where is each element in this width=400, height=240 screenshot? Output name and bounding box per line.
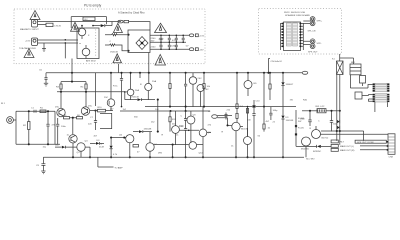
input loop wire xyxy=(16,111,60,144)
transistor Q18 xyxy=(197,85,209,107)
wire Q4 to rail2 xyxy=(85,147,91,158)
current source Q3 xyxy=(69,135,77,158)
cap C14 xyxy=(330,110,333,132)
svg-text:R41 0.22: R41 0.22 xyxy=(316,106,326,108)
wire J2 lower xyxy=(38,43,79,49)
jumper box W1 xyxy=(46,23,62,27)
svg-text:2200: 2200 xyxy=(151,38,157,40)
output rail left xyxy=(336,75,338,141)
shunt resistor R2 xyxy=(23,110,30,145)
label box inside A xyxy=(83,17,95,21)
svg-text:2SA: 2SA xyxy=(152,80,157,83)
aux box X2 xyxy=(355,92,373,99)
warning triangle T7 xyxy=(155,55,166,66)
svg-text:2SC: 2SC xyxy=(55,107,60,109)
svg-text:MAIN OUT (R): MAIN OUT (R) xyxy=(340,149,355,152)
svg-text:1N4148: 1N4148 xyxy=(131,97,139,99)
transistor Q4 xyxy=(77,143,85,158)
box B inner labels xyxy=(79,35,90,45)
cap C8 pair xyxy=(181,111,188,158)
svg-text:ATN 5532: ATN 5532 xyxy=(86,59,96,62)
svg-text:A Started by Chad Rho: A Started by Chad Rho xyxy=(118,11,145,15)
terminal row 2 xyxy=(331,144,388,148)
svg-text:35V: 35V xyxy=(151,41,155,43)
relay coil K1 xyxy=(337,61,344,75)
cap C15 xyxy=(113,72,123,108)
bias line xyxy=(57,91,125,93)
speaker jack SPK- xyxy=(303,39,322,54)
cap C3 xyxy=(56,118,67,144)
diode D4 row xyxy=(125,92,155,101)
feeder x204 with resistor xyxy=(203,73,211,107)
aux box X1 xyxy=(360,76,366,84)
feeder x170 with resistor xyxy=(169,73,171,107)
series resistor R1 xyxy=(40,108,46,113)
diode D5 xyxy=(133,130,152,133)
IC U3 left pins xyxy=(281,23,284,50)
relay sub-box B xyxy=(77,28,99,59)
transistor Q17 xyxy=(189,73,202,107)
transistor Q12 xyxy=(240,127,252,159)
svg-text:BD: BD xyxy=(254,83,257,85)
svg-text:SPK+: SPK+ xyxy=(317,21,323,23)
emitter resistor R41 xyxy=(302,106,341,113)
output stub upper of box A xyxy=(189,34,204,38)
diode D11v xyxy=(99,138,118,159)
tail wire xyxy=(70,117,77,135)
zener D10 xyxy=(296,145,331,153)
warning triangle T4b xyxy=(113,54,122,63)
wire box D to relay xyxy=(340,54,354,64)
protection diode D9 xyxy=(337,126,340,129)
load resistor R3 xyxy=(56,82,62,109)
header J5 xyxy=(373,83,390,92)
wire y131 to output xyxy=(321,130,364,141)
svg-text:SPL-CB: SPL-CB xyxy=(308,31,316,33)
svg-text:2SC: 2SC xyxy=(198,78,203,80)
drop from box A x118 xyxy=(118,64,120,73)
IC U3 body xyxy=(284,22,301,51)
shunt cap C2a xyxy=(46,110,49,145)
resistor R10 xyxy=(90,107,113,112)
cap C7 xyxy=(90,111,97,130)
svg-text:CN8: CN8 xyxy=(389,157,394,159)
wires relay to header xyxy=(350,75,372,88)
resistor R15 xyxy=(263,73,265,132)
load resistor R4 xyxy=(81,82,88,107)
transistor Q13 xyxy=(244,73,257,96)
svg-text:100n: 100n xyxy=(300,119,306,121)
junction dots on rail xyxy=(71,72,284,74)
protection diode D8 xyxy=(337,120,340,123)
filter cap bank rails xyxy=(150,35,189,49)
svg-text:PU is empty: PU is empty xyxy=(84,4,102,8)
transistor Q2 xyxy=(81,107,89,115)
wire J2 upper xyxy=(38,39,79,41)
svg-text:1N4007: 1N4007 xyxy=(286,84,294,86)
svg-text:+15V: +15V xyxy=(25,41,31,43)
svg-text:2SC: 2SC xyxy=(104,97,109,99)
driver transistor Q16 xyxy=(145,73,157,100)
diode D1 xyxy=(92,22,112,28)
ground rail 2 xyxy=(43,156,304,158)
svg-text:2SA: 2SA xyxy=(135,89,140,92)
lower wire with resistor xyxy=(105,41,130,54)
svg-text:SPK OUT: SPK OUT xyxy=(308,52,318,54)
svg-text:SPEAKER JUNK BOARD: SPEAKER JUNK BOARD xyxy=(285,14,310,17)
svg-text:CN-3x8=24: CN-3x8=24 xyxy=(271,61,283,63)
svg-text:1N4148: 1N4148 xyxy=(286,120,294,122)
svg-text:100n: 100n xyxy=(333,124,339,126)
emitter resistor R6 xyxy=(77,115,83,119)
bank labels xyxy=(151,38,190,49)
feedback step wire xyxy=(100,113,112,128)
bridge rectifier BR1 xyxy=(136,37,148,50)
svg-text:2200: 2200 xyxy=(159,39,165,41)
warning triangle T2 xyxy=(24,49,34,58)
transistor Q1 xyxy=(57,108,65,116)
wire rail to diode row xyxy=(139,73,141,78)
resistor R18 xyxy=(133,145,139,148)
terminal row 1 xyxy=(331,140,388,144)
diode D6 xyxy=(281,73,294,116)
mid bus y111 xyxy=(120,110,210,112)
svg-text:TO AMP: TO AMP xyxy=(114,166,123,169)
svg-text:2200: 2200 xyxy=(171,46,177,48)
transistor Q19 xyxy=(172,111,199,145)
dashed enclosure box A (preamp module) xyxy=(14,9,205,64)
mid bus y106 xyxy=(145,106,296,108)
svg-text:2SC: 2SC xyxy=(88,106,93,108)
wire J1 lower stub xyxy=(38,24,47,26)
warning triangle T4 xyxy=(113,23,122,32)
resistor R12 xyxy=(169,111,177,132)
dashed enclosure box D (speaker junk board) xyxy=(259,9,342,54)
ground below J2 xyxy=(42,49,46,52)
connector J4 xyxy=(208,111,251,126)
cap column C11 xyxy=(252,100,255,158)
transistor Q9 xyxy=(199,107,211,159)
svg-text:+15V: +15V xyxy=(199,36,205,38)
pad P1 xyxy=(295,118,305,127)
output transistor Q14 xyxy=(312,126,389,140)
main positive rail xyxy=(46,72,302,74)
relay contact block K1b xyxy=(350,62,361,75)
drop from box A x148 xyxy=(148,53,150,73)
warning triangle T1 xyxy=(30,11,40,20)
connector CN8 body xyxy=(387,134,395,159)
svg-text:SLO MO: SLO MO xyxy=(306,158,315,160)
test point TP1 xyxy=(302,71,308,74)
svg-text:SPK OUT (COM): SPK OUT (COM) xyxy=(357,142,374,144)
capacitor C4 xyxy=(175,35,178,51)
svg-text:100p: 100p xyxy=(179,126,185,128)
opto U2 lower xyxy=(82,45,90,59)
svg-text:TOA TAKEOVER: TOA TAKEOVER xyxy=(19,47,36,50)
svg-text:2SC: 2SC xyxy=(205,89,210,91)
mid wire y144 xyxy=(154,144,203,159)
speaker jack SPK+ xyxy=(303,17,323,26)
cap C10 xyxy=(225,113,228,120)
svg-text:4148: 4148 xyxy=(99,147,105,149)
resistor R14 xyxy=(236,73,244,123)
output rail right xyxy=(339,75,341,145)
connector J1 magnetic input xyxy=(32,20,38,28)
svg-text:100n: 100n xyxy=(61,126,67,128)
svg-text:RLY: RLY xyxy=(340,142,345,144)
pad P2 xyxy=(295,110,305,146)
svg-text:MAIN OUT (L): MAIN OUT (L) xyxy=(340,145,354,148)
output stub lower of box A xyxy=(189,48,204,52)
coupling cap C1 xyxy=(31,108,36,113)
bias diode D2 xyxy=(55,144,77,148)
transistor Q6 xyxy=(110,135,134,159)
IC U3 right pins xyxy=(300,23,304,50)
warning triangle T3 xyxy=(71,22,80,31)
resistor R19 xyxy=(246,106,248,137)
cap C12 xyxy=(269,107,272,120)
svg-text:1N: 1N xyxy=(99,144,102,146)
svg-text:BZX85C: BZX85C xyxy=(313,151,322,153)
resistor R16 xyxy=(269,73,271,100)
vertical to rail xyxy=(65,43,72,73)
svg-text:R 220: R 220 xyxy=(298,128,305,130)
transistor Q10 xyxy=(189,124,197,149)
svg-text:C75-W: C75-W xyxy=(54,25,62,27)
bridge loop C xyxy=(128,30,150,53)
diode D7 xyxy=(281,116,294,159)
svg-text:MJ2955: MJ2955 xyxy=(301,149,310,151)
transistor Q11 xyxy=(232,122,249,158)
warning triangle T5 xyxy=(155,23,167,32)
capacitor C5 xyxy=(182,35,185,44)
VAS transistor Q5 xyxy=(107,73,115,111)
svg-text:MAGNETIC INPUT: MAGNETIC INPUT xyxy=(20,28,39,31)
terminal row 3 xyxy=(331,148,388,152)
transistor Q7 xyxy=(146,132,154,159)
svg-text:-15V: -15V xyxy=(199,50,204,52)
cap C9 with ground xyxy=(36,157,46,174)
connector J2 line input xyxy=(32,38,38,46)
transistor Q8 xyxy=(187,111,195,124)
collector riser Q2 cap xyxy=(94,73,96,112)
output transistor Q15 xyxy=(301,137,311,157)
feeder x157 xyxy=(157,99,159,133)
fuse F1 xyxy=(118,20,150,30)
opto U1 upper xyxy=(78,25,86,39)
wire J1 to fuse xyxy=(38,21,122,23)
diode D3 xyxy=(90,142,104,145)
junction dots J2 wires xyxy=(65,39,67,44)
decoupling cap C6 with ground xyxy=(39,70,48,86)
capacitor C3 xyxy=(168,35,171,51)
feeder x185 with cap xyxy=(184,73,187,111)
to amp stub xyxy=(98,157,123,169)
emitter resistor R5 xyxy=(64,115,70,119)
wires header stubs xyxy=(369,99,388,112)
wires into bridge loop xyxy=(105,34,130,36)
svg-text:1N4148: 1N4148 xyxy=(144,129,152,131)
wire box D to rail xyxy=(268,59,270,73)
branch to diff pair loads xyxy=(61,73,86,83)
svg-text:100p: 100p xyxy=(273,110,279,112)
input jack J3 xyxy=(1,103,16,123)
capacitor C2 xyxy=(160,35,163,51)
header J6 xyxy=(373,94,390,103)
cap C13 xyxy=(300,110,312,126)
svg-text:BD712: BD712 xyxy=(322,138,329,140)
transistor Q16a xyxy=(124,72,139,100)
over-loop wire xyxy=(71,17,106,28)
svg-text:WHY I SHOULD USE: WHY I SHOULD USE xyxy=(284,12,306,14)
svg-text:RC: RC xyxy=(85,19,89,21)
svg-text:SPK-: SPK- xyxy=(317,43,322,45)
svg-text:2200: 2200 xyxy=(151,47,157,49)
